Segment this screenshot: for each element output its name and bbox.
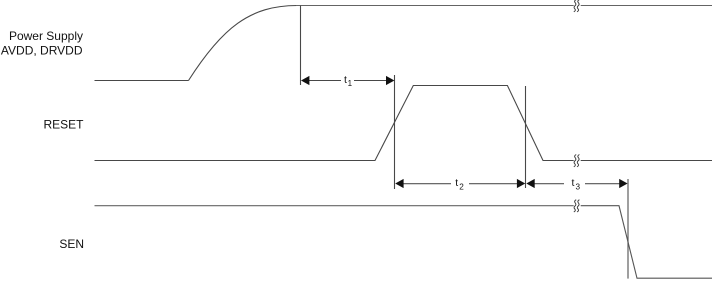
arrowhead t3 right	[619, 179, 627, 188]
break symbol on SEN line	[574, 200, 576, 212]
break symbol on RESET line	[574, 155, 576, 167]
wire: power supply high level right of break	[581, 5, 712, 7]
wire: SEN high right of break, falling edge, low level	[581, 206, 712, 279]
node: marker line at power-good (V0)	[300, 6, 302, 86]
arrowhead t2 left	[395, 179, 403, 188]
arrowhead t1 right	[386, 76, 394, 85]
wire: RESET low right of break	[581, 160, 712, 162]
arrowhead t1 left	[301, 76, 309, 85]
wire: RESET low then pulse	[95, 86, 574, 161]
svg-text:3: 3	[576, 182, 581, 191]
break symbol on power supply line	[574, 0, 576, 12]
wire: t3 dimension line	[534, 183, 564, 185]
node: marker line at SEN fall (V3)	[627, 179, 629, 279]
svg-text:1: 1	[348, 79, 353, 88]
svg-text:Power Supply: Power Supply	[9, 29, 83, 43]
arrowhead t2 right	[517, 179, 525, 188]
wire: t1 dimension line	[309, 80, 342, 82]
wire: power supply ramp	[189, 6, 298, 81]
svg-text:RESET: RESET	[43, 117, 84, 131]
arrowhead t3 left	[526, 179, 534, 188]
wire: SEN high level left of break	[95, 205, 574, 207]
wire: power supply low level	[95, 80, 189, 82]
wire: t2 dimension line	[403, 183, 451, 185]
node: marker line at reset fall (V2)	[525, 86, 527, 188]
svg-text:2: 2	[459, 182, 464, 191]
wire: power supply high level left of break	[296, 5, 574, 7]
svg-text:t: t	[344, 74, 347, 86]
svg-text:AVDD, DRVDD: AVDD, DRVDD	[1, 44, 83, 58]
svg-text:t: t	[455, 177, 458, 189]
svg-text:SEN: SEN	[59, 237, 84, 251]
svg-text:t: t	[572, 177, 575, 189]
node: marker line at t1 end (V1)	[394, 75, 396, 189]
